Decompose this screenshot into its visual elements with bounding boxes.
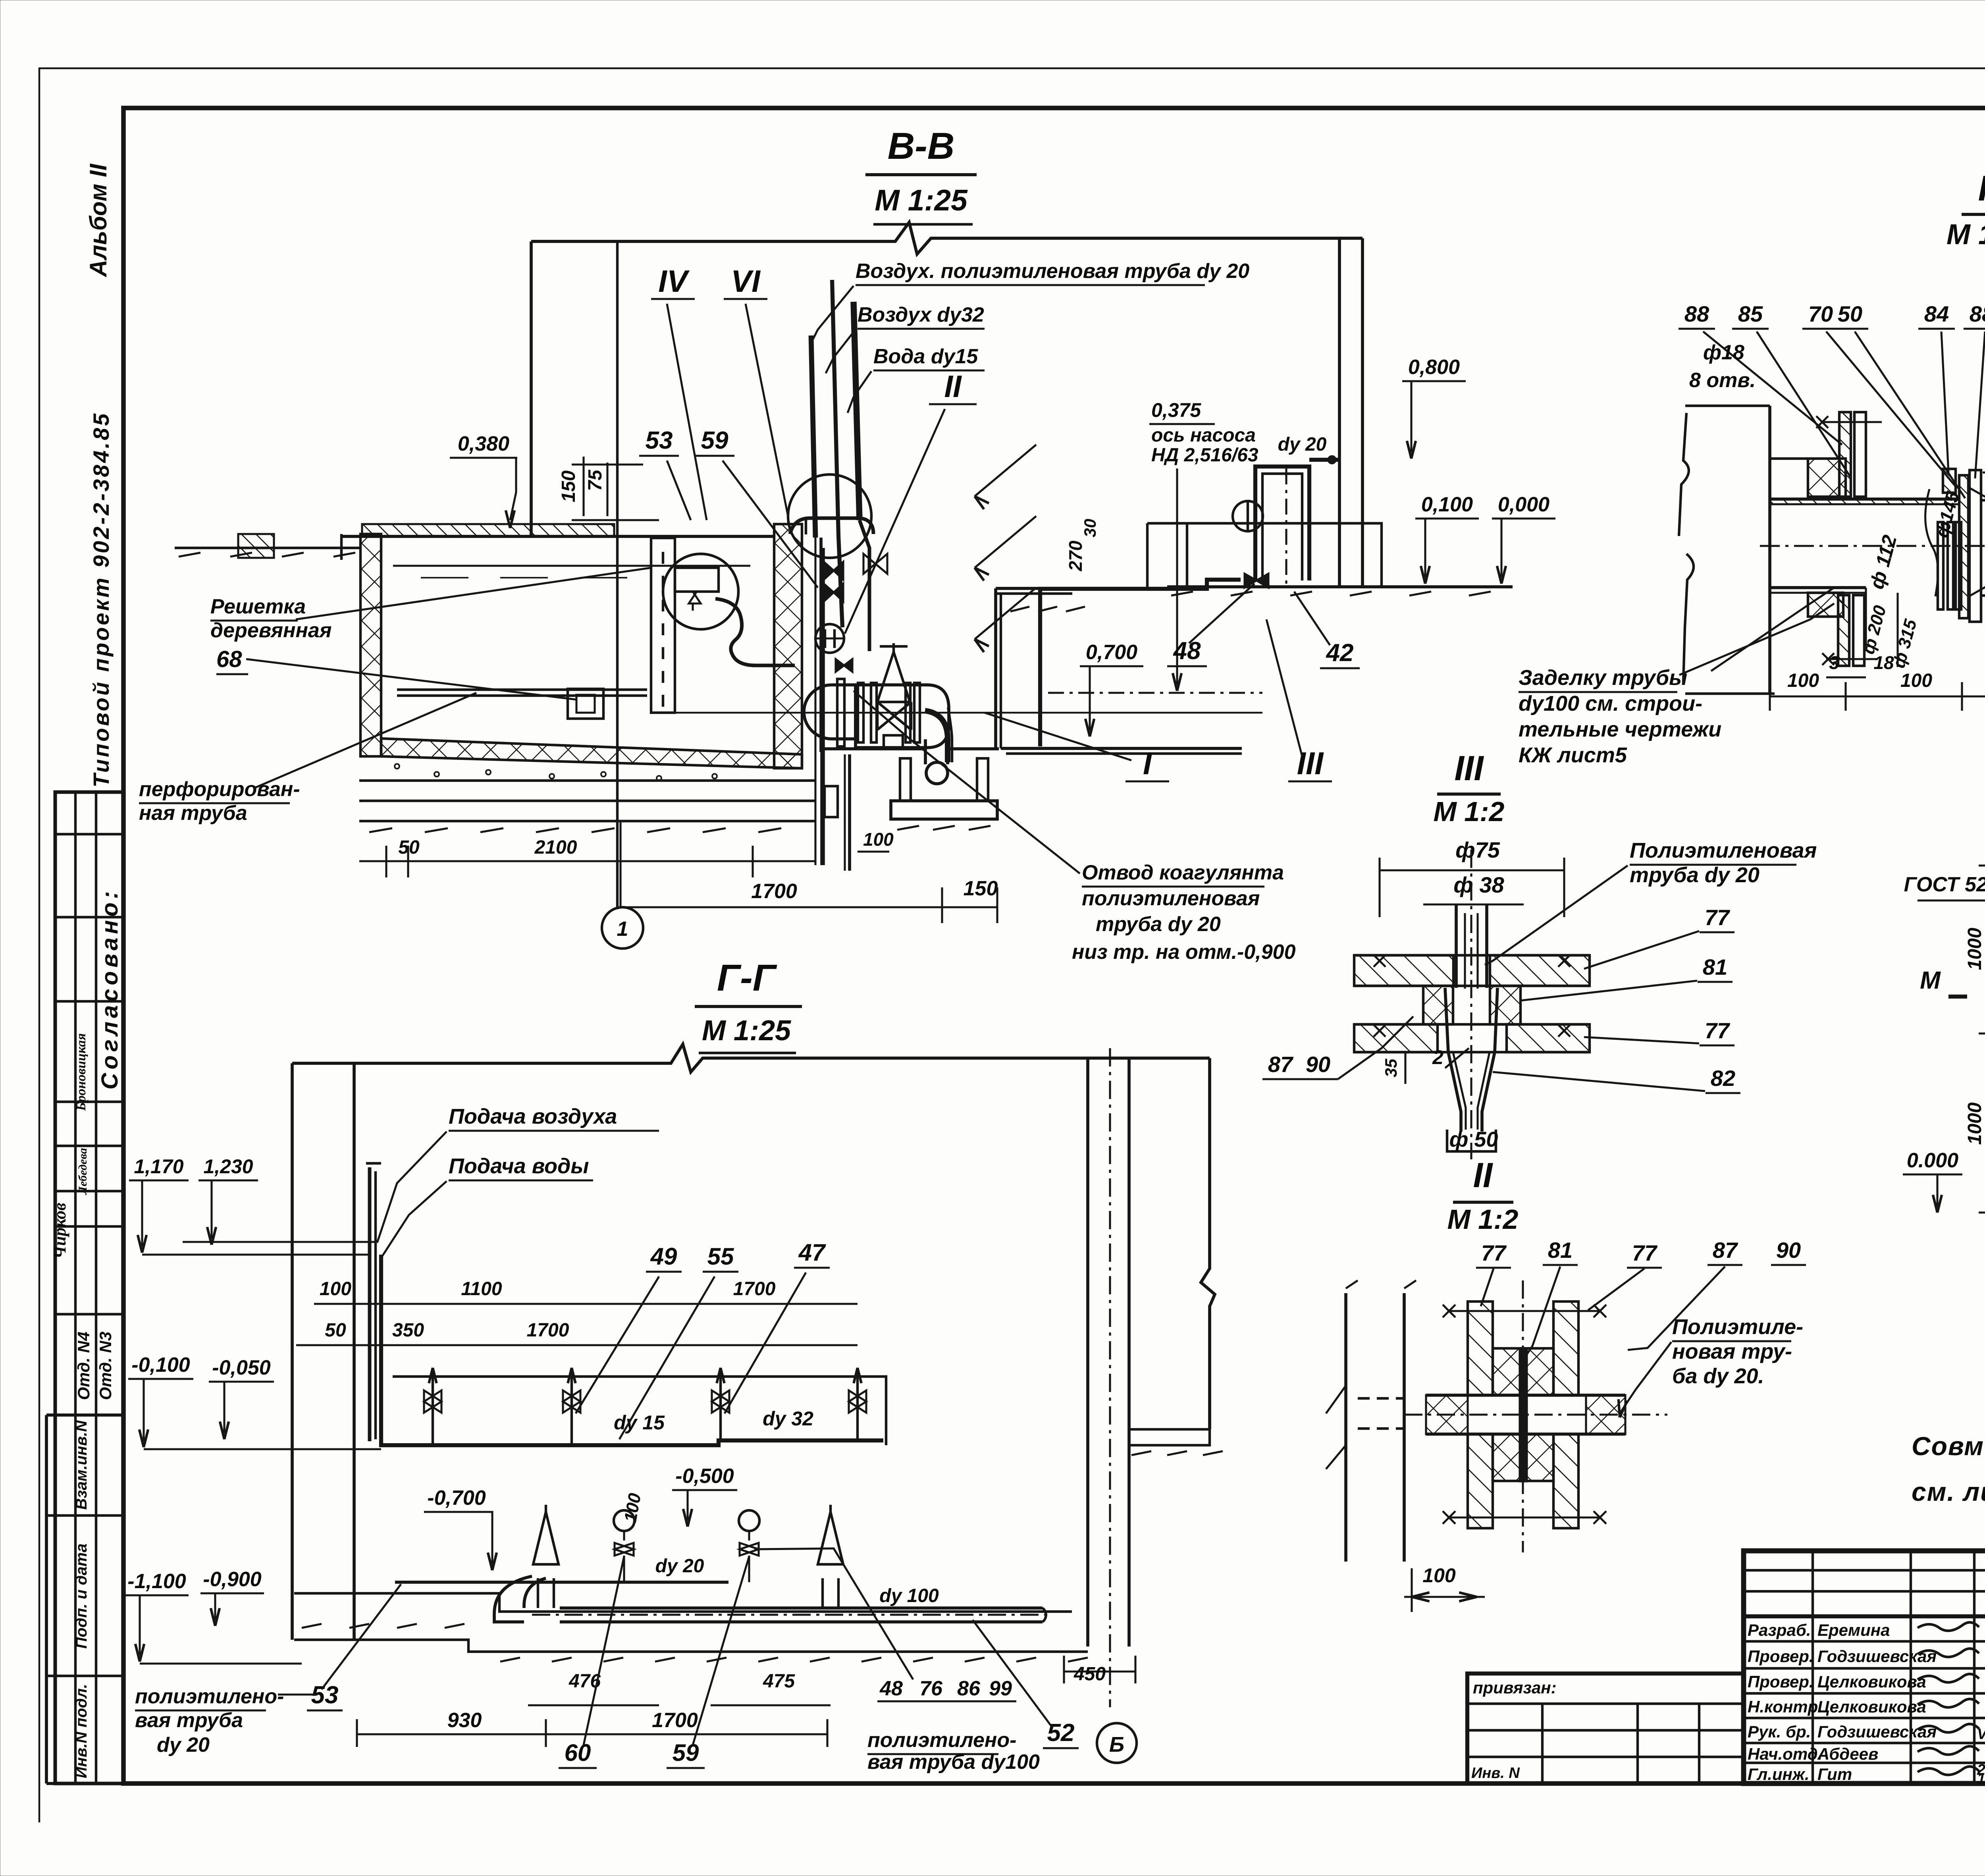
B-B wooden grate dashed	[651, 538, 675, 713]
svg-text:низ тр. на отм.-0,900: низ тр. на отм.-0,900	[1072, 941, 1296, 964]
B-B tank left wall hatched	[360, 534, 381, 756]
svg-text:100: 100	[320, 1278, 351, 1300]
svg-text:0,800: 0,800	[1408, 356, 1460, 379]
detail III funnel cone	[1445, 988, 1461, 1132]
B-B float regulator circle	[663, 554, 738, 629]
G-G upper manifold outline	[393, 1377, 886, 1445]
svg-text:87: 87	[1268, 1052, 1294, 1077]
svg-text:Воздух. полиэтиленовая труба d: Воздух. полиэтиленовая труба dy 20	[856, 260, 1249, 283]
B-B riser pipe below floor	[814, 538, 816, 865]
B-B pipes over wall elbows	[790, 518, 873, 534]
svg-text:77: 77	[1705, 1018, 1731, 1043]
svg-text:52: 52	[1047, 1719, 1075, 1747]
svg-text:VI: VI	[731, 264, 761, 299]
G-G dy100 elbow left	[524, 1578, 546, 1608]
svg-text:77: 77	[1632, 1240, 1658, 1265]
svg-text:1000: 1000	[1964, 927, 1985, 970]
B-B tank inner right wall hatched	[774, 524, 802, 768]
svg-text:90: 90	[1776, 1238, 1801, 1263]
B-B pump base lug	[884, 735, 903, 749]
B-B pump body casing	[856, 685, 949, 748]
svg-text:49: 49	[650, 1243, 677, 1270]
svg-text:I: I	[1978, 169, 1985, 208]
svg-text:Согласовано:: Согласовано:	[97, 888, 123, 1090]
svg-text:dy 15: dy 15	[614, 1411, 665, 1434]
svg-text:81: 81	[1548, 1238, 1573, 1263]
svg-text:Целковикова: Целковикова	[1817, 1697, 1926, 1716]
svg-text:86: 86	[957, 1677, 981, 1700]
title block outer	[1744, 1551, 1985, 1783]
detail I lower seal	[1808, 593, 1843, 617]
svg-text:ф 50: ф 50	[1449, 1128, 1498, 1151]
svg-text:1: 1	[617, 918, 628, 941]
svg-text:100: 100	[863, 829, 894, 850]
detail I pipe body	[1770, 497, 1959, 501]
svg-text:87: 87	[1713, 1238, 1738, 1263]
G-G right wall	[1086, 1058, 1089, 1647]
svg-text:350: 350	[392, 1320, 424, 1341]
svg-text:1,230: 1,230	[203, 1155, 253, 1178]
svg-text:Нач.отд.: Нач.отд.	[1748, 1745, 1822, 1763]
B-B pit bench	[1147, 523, 1382, 587]
B-B air water pipe elbow to pump	[860, 520, 869, 651]
detail II flange plates top	[1468, 1301, 1493, 1395]
svg-text:81: 81	[1703, 954, 1727, 979]
svg-text:53: 53	[646, 427, 673, 454]
title block grid	[1744, 1614, 1985, 1618]
B-B pump shaft discs	[837, 679, 844, 746]
svg-text:dy 100: dy 100	[879, 1585, 939, 1606]
svg-text:Разраб.: Разраб.	[1748, 1621, 1811, 1639]
svg-text:VI.83: VI.83	[1977, 1726, 1985, 1743]
G-G dims 50 350 1700	[296, 1344, 858, 1346]
svg-text:ф75: ф75	[1455, 837, 1500, 862]
detail II tie line top with x	[1449, 1310, 1600, 1312]
svg-text:0,100: 0,100	[1421, 493, 1473, 516]
G-G dim 450 ticks	[1063, 1656, 1065, 1683]
svg-text:76: 76	[919, 1677, 943, 1700]
svg-text:100: 100	[1900, 670, 1932, 691]
svg-text:1700: 1700	[733, 1278, 776, 1300]
svg-text:М 1:2: М 1:2	[1434, 796, 1505, 827]
G-G vantuz air valves	[533, 1512, 559, 1564]
B-B tank bottom hatched band	[381, 738, 802, 768]
svg-text:Провер.: Провер.	[1748, 1672, 1814, 1691]
svg-text:Г-Г: Г-Г	[717, 957, 777, 999]
svg-text:труба dy 20: труба dy 20	[1096, 913, 1221, 936]
svg-text:3: 3	[1829, 652, 1839, 673]
B-B pump axis line	[671, 712, 1262, 714]
svg-text:0,380: 0,380	[458, 432, 509, 455]
svg-text:II: II	[944, 369, 962, 404]
svg-text:II: II	[1473, 1155, 1493, 1195]
svg-text:вая труба: вая труба	[135, 1709, 243, 1732]
G-G right ledge	[1129, 1429, 1210, 1445]
svg-text:Инв. N: Инв. N	[1471, 1765, 1520, 1782]
G-G ground hatch upper	[302, 1624, 322, 1628]
svg-text:Гл.инж.: Гл.инж.	[1748, 1765, 1810, 1783]
B-B valve bowtie at pit	[1245, 574, 1257, 588]
svg-text:85: 85	[1738, 301, 1763, 326]
svg-text:тельные чертежи: тельные чертежи	[1519, 717, 1721, 741]
svg-text:dy 20: dy 20	[1278, 434, 1327, 455]
svg-text:новая тру-: новая тру-	[1672, 1340, 1792, 1363]
detail III upper slab	[1354, 955, 1453, 986]
B-B left wall verticals	[530, 241, 533, 537]
detail III lower slab	[1354, 1024, 1438, 1052]
svg-text:ось насоса: ось насоса	[1151, 425, 1256, 446]
svg-text:Годзишевская: Годзишевская	[1817, 1647, 1937, 1666]
svg-text:М: М	[1920, 967, 1941, 994]
B-B coagulant pipe down wall	[811, 335, 815, 538]
svg-text:60: 60	[565, 1739, 591, 1766]
B-B bottom dims row2	[621, 906, 997, 908]
svg-text:КЖ лист5: КЖ лист5	[1519, 743, 1627, 767]
svg-text:Провер.: Провер.	[1748, 1647, 1814, 1666]
B-B dy20 riser outside	[1255, 467, 1309, 580]
svg-text:Отвод коагулянта: Отвод коагулянта	[1082, 861, 1284, 884]
B-B pump valve cross	[877, 702, 911, 730]
svg-text:-0,050: -0,050	[212, 1356, 271, 1379]
svg-text:0,700: 0,700	[1086, 641, 1137, 664]
B-B left ground hatch	[175, 547, 360, 549]
svg-text:82: 82	[1711, 1066, 1735, 1091]
svg-text:70: 70	[1808, 301, 1833, 326]
G-G ground hatch lower	[500, 1658, 520, 1662]
svg-text:dy 32: dy 32	[763, 1407, 813, 1430]
detail III x ticks	[1374, 955, 1386, 967]
svg-text:Альбом II: Альбом II	[85, 163, 112, 278]
svg-text:18: 18	[1873, 652, 1894, 673]
svg-text:перфорирован-: перфорирован-	[139, 778, 300, 801]
svg-text:-0,500: -0,500	[675, 1465, 734, 1488]
B-B axis 42 centerline	[1285, 469, 1287, 586]
B-B left wall small hatched block	[238, 534, 274, 558]
detail II gasket top	[1493, 1348, 1553, 1395]
G-G far right wall segment	[1201, 1058, 1215, 1429]
svg-text:1700: 1700	[652, 1709, 698, 1732]
svg-text:77: 77	[1705, 905, 1731, 930]
svg-text:48: 48	[1173, 637, 1201, 665]
svg-text:Взам.инв.N: Взам.инв.N	[73, 1420, 90, 1510]
detail I lower studs	[1838, 595, 1849, 666]
G-G supply pipes down wall	[368, 1167, 372, 1441]
B-B perforated pipe in tank	[397, 688, 647, 691]
svg-text:М 1:5: М 1:5	[1946, 219, 1985, 251]
signatures squiggles	[1918, 1622, 1979, 1631]
svg-text:55: 55	[707, 1243, 734, 1270]
B-B small valve below gauge	[836, 659, 844, 672]
B-B ceiling line	[531, 222, 1363, 254]
svg-text:dy100 см. строи-: dy100 см. строи-	[1519, 692, 1702, 715]
detail II flange plates bottom	[1468, 1434, 1493, 1528]
B-B thick pipe at ground	[1040, 580, 1241, 746]
detail III pipe	[1455, 904, 1458, 988]
B-B riser valves dark	[824, 562, 834, 580]
svg-text:Еремина: Еремина	[1817, 1621, 1890, 1639]
B-B bottom dims row1	[359, 860, 815, 862]
svg-text:0.000: 0.000	[1907, 1149, 1958, 1172]
B-B pump motor	[804, 685, 856, 739]
svg-text:IV: IV	[658, 264, 690, 299]
svg-text:0,000: 0,000	[1498, 493, 1549, 516]
svg-text:Броновицкая: Броновицкая	[74, 1033, 89, 1111]
B-B right pit outline	[994, 588, 997, 748]
svg-text:Совместно с данным ли: Совместно с данным листом	[1912, 1431, 1985, 1461]
B-B foundation slab lines	[359, 779, 815, 782]
svg-text:1100: 1100	[461, 1278, 502, 1300]
B-B perforated pipe leader square	[568, 689, 603, 719]
svg-text:1983: 1983	[1977, 1770, 1985, 1787]
svg-text:99: 99	[989, 1677, 1012, 1700]
svg-text:-0,100: -0,100	[131, 1353, 190, 1377]
B-B tank top hatch strip	[362, 524, 614, 536]
svg-text:ф 38: ф 38	[1453, 872, 1504, 897]
G-G valve risers	[432, 1368, 434, 1445]
B-B pit top ledge	[996, 587, 1072, 590]
svg-text:вая труба dy100: вая труба dy100	[867, 1751, 1040, 1774]
svg-text:88: 88	[1684, 301, 1709, 326]
svg-text:dy 20: dy 20	[655, 1556, 704, 1577]
svg-text:полиэтилено-: полиэтилено-	[135, 1685, 284, 1708]
svg-text:НД 2,516/63: НД 2,516/63	[1151, 445, 1258, 466]
svg-text:Целковикова: Целковикова	[1817, 1672, 1926, 1691]
B-B pump floor	[821, 747, 926, 750]
svg-text:Воздух dy32: Воздух dy32	[858, 303, 984, 326]
G-G dim 450	[1064, 1670, 1135, 1672]
svg-text:Гит: Гит	[1817, 1765, 1852, 1783]
svg-text:привязан:: привязан:	[1473, 1678, 1557, 1697]
svg-text:75: 75	[585, 469, 606, 491]
svg-text:100: 100	[1787, 670, 1819, 691]
B-B valve on riser	[863, 554, 875, 574]
G-G lower pipe dy20	[395, 1581, 728, 1584]
svg-text:77: 77	[1481, 1240, 1507, 1265]
G-G left wall	[291, 1063, 294, 1640]
svg-text:Инв.N подл.: Инв.N подл.	[73, 1684, 90, 1778]
G-G pipe dy100	[560, 1606, 1043, 1610]
G-G upper pipe dy15 dy32	[381, 1255, 883, 1445]
svg-text:8 отв.: 8 отв.	[1689, 369, 1756, 392]
svg-text:-1,100: -1,100	[127, 1570, 186, 1593]
svg-text:М 1:25: М 1:25	[702, 1015, 791, 1047]
G-G small drain valves	[614, 1510, 634, 1531]
detail I upper seal	[1808, 459, 1846, 497]
detail I zadelka leader	[1711, 588, 1834, 671]
svg-text:Рук. бр.: Рук. бр.	[1748, 1722, 1811, 1741]
svg-text:труба dy 20: труба dy 20	[1630, 863, 1760, 887]
svg-text:Отд. N4: Отд. N4	[74, 1332, 93, 1400]
svg-text:Годзишевская: Годзишевская	[1817, 1722, 1937, 1741]
svg-text:-0,700: -0,700	[427, 1487, 486, 1510]
B-B axis bubble 1	[602, 907, 643, 949]
svg-text:Б: Б	[1109, 1733, 1124, 1756]
left margin stamp column grid	[55, 792, 123, 1783]
svg-text:В-В: В-В	[888, 125, 955, 167]
svg-text:М 1:2: М 1:2	[1447, 1204, 1519, 1235]
B-B pump foundation plate	[891, 801, 997, 819]
B-B pump axis centerline	[1048, 692, 1262, 694]
svg-text:1,170: 1,170	[134, 1155, 183, 1178]
B-B ladder arrows in pit	[975, 445, 1036, 496]
detail II center gasket line	[1520, 1348, 1527, 1481]
svg-text:100: 100	[1422, 1564, 1456, 1587]
detail I taper cone	[1982, 500, 1985, 516]
svg-text:2100: 2100	[534, 837, 577, 858]
svg-text:-0,900: -0,900	[203, 1568, 262, 1591]
svg-text:Подача воды: Подача воды	[449, 1154, 589, 1178]
svg-text:1700: 1700	[751, 880, 797, 903]
detail I callout leaders	[1703, 332, 1842, 445]
G-G ceiling line	[292, 1044, 1210, 1072]
G-G dims 100 1100 1700	[314, 1303, 858, 1305]
svg-text:47: 47	[798, 1239, 826, 1266]
svg-text:полиэтилено-: полиэтилено-	[867, 1729, 1016, 1752]
detail I bottom dims	[1770, 695, 1985, 697]
svg-text:полиэтиленовая: полиэтиленовая	[1082, 887, 1260, 910]
B-B sediment dots	[395, 764, 399, 769]
detail III centerline	[1470, 850, 1472, 1159]
B-B tank top edge	[341, 535, 774, 538]
svg-text:150: 150	[964, 877, 998, 900]
svg-text:59: 59	[673, 1739, 699, 1766]
svg-text:ная труба: ная труба	[139, 802, 247, 825]
svg-text:2: 2	[1432, 1046, 1443, 1068]
B-B right building wall	[1338, 238, 1341, 587]
svg-text:Чирков: Чирков	[50, 1203, 69, 1259]
detail I bellows	[1938, 522, 1943, 609]
svg-text:270: 270	[1065, 540, 1086, 571]
detail III rubber seal	[1423, 986, 1453, 1024]
svg-text:Н.контр.: Н.контр.	[1748, 1697, 1823, 1716]
svg-text:88: 88	[1970, 301, 1985, 326]
svg-text:Лебедева: Лебедева	[76, 1148, 89, 1195]
svg-text:48: 48	[879, 1677, 903, 1700]
svg-text:150: 150	[558, 470, 579, 502]
svg-text:Полиэтиле-: Полиэтиле-	[1672, 1315, 1803, 1339]
B-B right ground line	[1167, 585, 1513, 588]
svg-text:35: 35	[1382, 1059, 1400, 1077]
svg-text:ф18: ф18	[1703, 341, 1744, 364]
svg-text:50: 50	[1838, 301, 1862, 326]
B-B S pipe from tank	[715, 599, 795, 665]
B-B top pipe riser thick	[854, 302, 860, 520]
B-B discharge pipe end circle	[926, 762, 948, 784]
detail II tie line bottom with x	[1449, 1516, 1600, 1518]
svg-text:0,375: 0,375	[1151, 399, 1201, 421]
detail I upper studs	[1839, 412, 1851, 497]
detail I flange pack left	[1959, 475, 1968, 618]
svg-text:90: 90	[1306, 1052, 1330, 1077]
svg-text:30: 30	[1081, 519, 1099, 538]
detail III f50 box	[1447, 1130, 1496, 1151]
G-G node B circle	[1097, 1723, 1137, 1763]
B-B ground hatch under slab	[369, 828, 392, 832]
svg-text:Решетка: Решетка	[210, 595, 306, 618]
svg-text:см. листы НК-3,4,6,7.: см. листы НК-3,4,6,7.	[1912, 1477, 1985, 1506]
svg-text:450: 450	[1073, 1664, 1106, 1685]
detail II pipe hatch left	[1426, 1395, 1468, 1434]
svg-text:dy 20: dy 20	[157, 1733, 210, 1756]
svg-text:Подача воздуха: Подача воздуха	[449, 1105, 617, 1128]
svg-text:М 1:25: М 1:25	[875, 183, 968, 217]
svg-text:50: 50	[325, 1320, 346, 1341]
B-B gauge circle node II	[815, 624, 844, 653]
B-B discharge elbow	[925, 711, 948, 762]
svg-text:1000: 1000	[1964, 1102, 1985, 1145]
svg-text:59: 59	[701, 427, 728, 454]
svg-text:930: 930	[447, 1709, 482, 1732]
detail I flange bolts top	[1943, 469, 1956, 493]
B-B circle IV detail	[663, 554, 738, 629]
svg-text:Полиэтиленовая: Полиэтиленовая	[1630, 839, 1817, 862]
B-B pump valve cone	[877, 652, 910, 702]
svg-text:ба dy 20.: ба dy 20.	[1672, 1364, 1764, 1388]
B-B room wall line	[819, 538, 823, 752]
detail I reducer cross leaders	[1970, 488, 1985, 596]
svg-text:III: III	[1454, 748, 1484, 788]
svg-text:1700: 1700	[527, 1320, 569, 1341]
svg-text:475: 475	[763, 1671, 795, 1692]
detail I centerline	[1760, 545, 1985, 547]
B-B pump foundation legs	[900, 758, 911, 801]
B-B water level	[393, 565, 750, 567]
detail II gasket bottom	[1493, 1434, 1553, 1481]
detail I wall break squiggle	[1679, 413, 1689, 536]
svg-text:Абдеев: Абдеев	[1817, 1745, 1878, 1763]
svg-text:Типовой проект 902-2-384.85: Типовой проект 902-2-384.85	[89, 412, 114, 788]
G-G dim 476 475	[528, 1704, 659, 1706]
B-B big circle VI detail	[788, 474, 871, 558]
privyazan table	[1467, 1674, 1744, 1783]
detail II vertical centerline	[1522, 1280, 1524, 1552]
svg-text:Подп. и дата: Подп. и дата	[73, 1544, 90, 1649]
svg-text:деревянная: деревянная	[210, 619, 331, 642]
detail I wall face line	[1768, 406, 1771, 694]
detail II pipe horizontal	[1426, 1394, 1625, 1397]
svg-text:Вода dy15: Вода dy15	[873, 345, 978, 368]
svg-text:ГОСТ 52 64-80: ГОСТ 52 64-80	[1904, 873, 1985, 896]
G-G floor slab steps	[294, 1593, 1072, 1612]
G-G dim row 930 1700	[357, 1733, 827, 1735]
svg-text:Отд. N3: Отд. N3	[96, 1332, 115, 1400]
svg-text:68: 68	[216, 646, 242, 672]
svg-text:I: I	[1143, 746, 1152, 781]
detail II wall	[1344, 1293, 1347, 1562]
svg-text:84: 84	[1924, 301, 1949, 326]
svg-text:Заделку трубы: Заделку трубы	[1519, 666, 1687, 690]
